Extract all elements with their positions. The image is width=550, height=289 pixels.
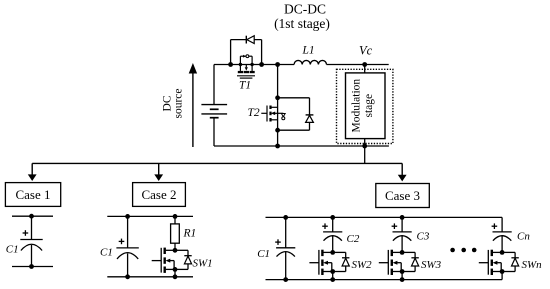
Case 3: top rail — [266, 216, 503, 218]
svg-text:SW1: SW1 — [193, 258, 213, 270]
svg-text:Cn: Cn — [517, 231, 530, 243]
transistor T1 (MOSFET, horizontal) — [237, 55, 255, 78]
Case 2: wire to C1 — [127, 216, 129, 248]
wire top rail of converter — [214, 64, 294, 66]
svg-text:C2: C2 — [347, 233, 360, 245]
switch SW2 (MOSFET with diode) — [309, 250, 349, 275]
switch SW3 (MOSFET with diode) — [379, 250, 419, 275]
Case 1: wire to capacitor — [31, 216, 33, 239]
Case 3 box — [376, 184, 430, 208]
capacitor Cn — [492, 223, 512, 240]
node junction right of T1 — [259, 62, 264, 67]
diode D2 parallel with T2 — [278, 97, 310, 99]
svg-text:Case 2: Case 2 — [141, 187, 176, 202]
svg-text:Vc: Vc — [359, 44, 373, 58]
Case 1: wire capacitor to bottom rail — [31, 245, 33, 267]
Case 3: C3 branch — [400, 215, 405, 220]
capacitor C1 (Case 3) — [275, 239, 295, 256]
capacitor C3 — [392, 223, 412, 240]
arrow to Case 2 — [158, 163, 160, 175]
svg-text:(1st stage): (1st stage) — [274, 16, 330, 31]
wire Vc node into modulation stage — [364, 65, 366, 73]
Case 2: wire R1 to SW1 — [174, 243, 176, 250]
svg-text:SW3: SW3 — [421, 259, 442, 271]
capacitor C1 (Case 1) — [20, 230, 42, 250]
Case 1: bottom rail — [12, 266, 53, 268]
wire T2 branch vertical — [277, 65, 279, 147]
svg-text:T1: T1 — [239, 80, 251, 92]
svg-text:Modulation: Modulation — [351, 79, 363, 133]
Case 3: C2 branch — [330, 215, 335, 220]
svg-text:C1: C1 — [100, 247, 113, 259]
arrow to Case 3 — [401, 163, 403, 175]
wire left drop to battery — [213, 65, 215, 105]
wire bottom rail of converter — [214, 145, 389, 147]
DC source arrow — [192, 73, 194, 148]
wire top rail after L1 to Vc — [327, 64, 389, 66]
battery DC source — [201, 105, 227, 118]
Case 3: C1 branch — [283, 215, 288, 220]
wire modulation stage to bus — [364, 139, 366, 164]
capacitor C2 — [322, 223, 342, 240]
svg-text:L1: L1 — [302, 45, 315, 57]
ellipsis dots — [450, 248, 455, 253]
svg-text:C3: C3 — [417, 231, 430, 243]
svg-text:T2: T2 — [248, 107, 260, 119]
wire distribution bus — [32, 162, 402, 164]
svg-text:source: source — [173, 88, 185, 118]
Case 2 box — [133, 183, 186, 207]
wire battery to bottom rail — [213, 118, 215, 146]
Case 1 box — [5, 183, 60, 207]
transistor T2 (MOSFET, vertical) — [261, 106, 285, 122]
Case 2: wire C1 to bottom rail — [127, 253, 129, 276]
svg-text:stage: stage — [363, 94, 375, 118]
svg-text:Case 1: Case 1 — [15, 187, 50, 202]
Case 2: top rail — [107, 215, 193, 217]
Case 2: bottom rail — [107, 276, 193, 278]
svg-text:SW2: SW2 — [352, 259, 373, 271]
inductor L1 — [294, 60, 326, 64]
resistor R1 — [171, 224, 180, 243]
arrow to Case 1 — [31, 163, 33, 175]
Case 2: wire rail to R1 — [174, 216, 176, 224]
svg-text:DC-DC: DC-DC — [284, 2, 326, 17]
svg-text:SWn: SWn — [522, 259, 543, 271]
svg-text:Case 3: Case 3 — [385, 188, 420, 203]
Case 3: bottom rail — [266, 279, 503, 281]
switch SW1 (MOSFET with diode) — [152, 248, 192, 273]
Case 2: wire SW1 to bottom rail — [174, 269, 176, 276]
diode D1 parallel loop over T1 — [230, 40, 232, 65]
svg-text:R1: R1 — [183, 228, 197, 240]
switch SWn (MOSFET with diode) — [479, 250, 519, 275]
modulation stage dashed enclosure — [337, 69, 393, 143]
node junction left of T1 — [228, 62, 233, 67]
svg-text:C1: C1 — [6, 244, 19, 256]
Case 1: top rail — [12, 215, 53, 217]
capacitor C1 (Case 2) — [116, 239, 138, 259]
modulation stage box — [346, 73, 386, 139]
svg-text:C1: C1 — [257, 248, 270, 260]
Case 3: Cn branch — [501, 217, 503, 232]
